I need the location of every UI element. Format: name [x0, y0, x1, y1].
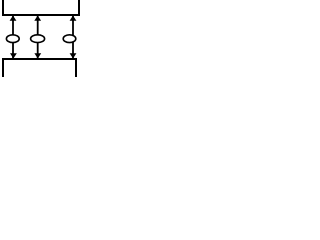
wire W3 (right vertical net) [72, 16, 74, 59]
arrowhead up, wire W2 into top block [34, 16, 41, 21]
arrowhead down, wire W3 into bottom block [70, 53, 77, 58]
wire W1 (left vertical net between top and bottom blocks) [12, 16, 14, 59]
top block (box, cropped at top edge of image) [2, 0, 80, 15]
node N3 (right ellipse element) [63, 35, 76, 43]
arrowhead up, wire W3 into top block [70, 16, 77, 21]
bottom block (box, cropped at bottom edge of image) [2, 59, 77, 77]
wire W2 (middle vertical net) [37, 16, 39, 59]
arrowhead down, wire W1 into bottom block [10, 53, 17, 58]
node N1 (left ellipse element) [6, 35, 19, 43]
arrowhead down, wire W2 into bottom block [34, 53, 41, 58]
arrowhead up, wire W1 into top block [10, 16, 17, 21]
node N2 (middle ellipse element) [31, 35, 45, 43]
